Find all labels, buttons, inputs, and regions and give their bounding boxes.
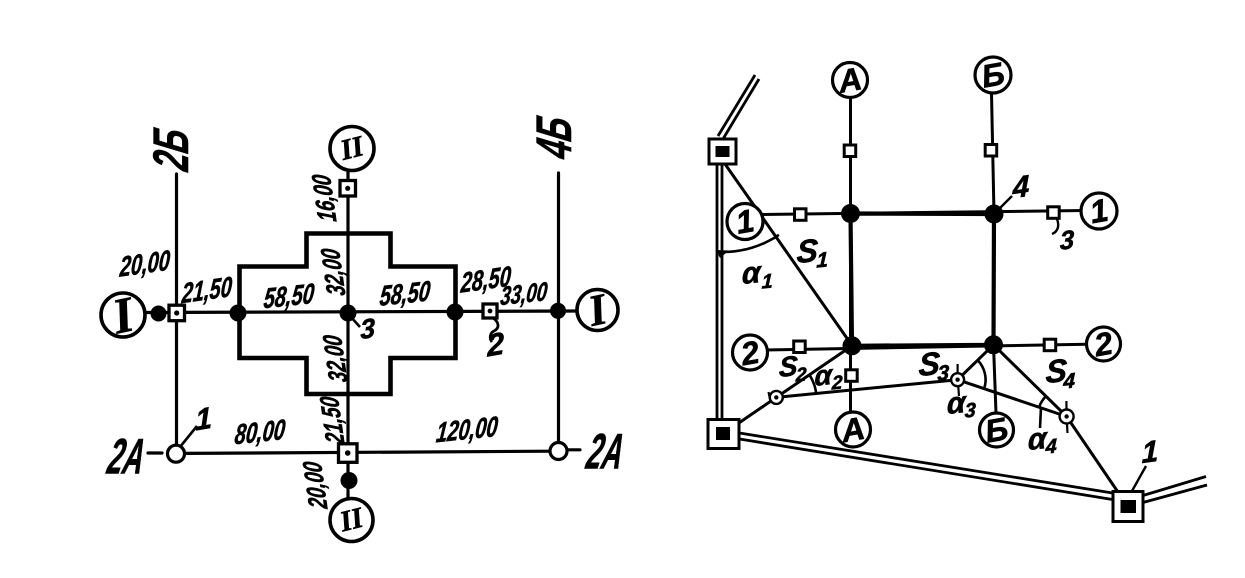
svg-text:2: 2 xyxy=(831,372,844,394)
svg-text:3: 3 xyxy=(964,399,976,422)
svg-text:4: 4 xyxy=(1044,435,1057,458)
svg-text:2: 2 xyxy=(486,325,505,363)
svg-text:3: 3 xyxy=(937,361,950,385)
svg-text:3: 3 xyxy=(360,312,376,346)
svg-text:1: 1 xyxy=(761,270,773,293)
svg-text:58,50: 58,50 xyxy=(378,276,432,312)
svg-text:1: 1 xyxy=(195,401,213,437)
svg-text:α: α xyxy=(742,256,763,291)
svg-text:33,00: 33,00 xyxy=(499,276,549,311)
svg-text:3: 3 xyxy=(1060,224,1075,256)
svg-text:1: 1 xyxy=(816,248,828,272)
svg-text:80,00: 80,00 xyxy=(233,415,287,451)
svg-text:1: 1 xyxy=(1142,435,1159,470)
svg-text:2: 2 xyxy=(795,364,808,386)
svg-text:58,50: 58,50 xyxy=(262,279,316,315)
svg-text:4: 4 xyxy=(1012,170,1030,206)
svg-text:4: 4 xyxy=(1062,369,1076,393)
